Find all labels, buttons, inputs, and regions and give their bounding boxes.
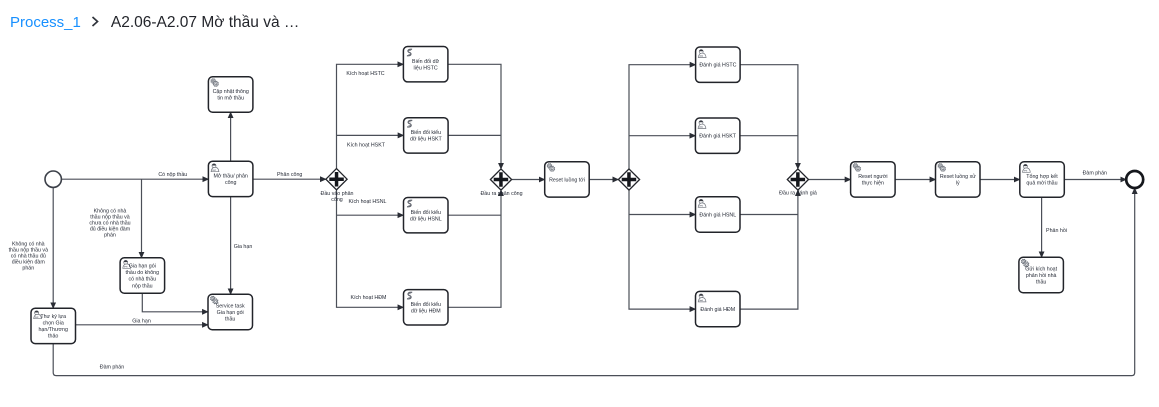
svg-text:Kích hoạt HĐM: Kích hoạt HĐM — [351, 295, 387, 301]
svg-text:Gia hạn: Gia hạn — [132, 319, 151, 325]
svg-text:Đánh giá HSTC: Đánh giá HSTC — [699, 63, 736, 69]
svg-text:Reset luồng tới: Reset luồng tới — [549, 177, 585, 183]
svg-text:Biến đổi kiểudữ liệu HSKT: Biến đổi kiểudữ liệu HSKT — [410, 129, 443, 143]
svg-text:Không có nhàthầu nộp thầu vàcó: Không có nhàthầu nộp thầu vàcó nhà thầu … — [9, 242, 49, 272]
svg-text:Có nộp thầu: Có nộp thầu — [158, 172, 187, 178]
svg-text:Reset ngườithực hiện: Reset ngườithực hiện — [858, 174, 887, 187]
svg-text:Kích hoạt HSTC: Kích hoạt HSTC — [346, 71, 384, 77]
svg-text:Gia hạn: Gia hạn — [234, 244, 253, 250]
svg-text:Đầu ra đánh giá: Đầu ra đánh giá — [779, 191, 817, 197]
svg-text:Cập nhật thôngtin mở thầu: Cập nhật thôngtin mở thầu — [213, 89, 249, 102]
svg-text:Đầu ra phân công: Đầu ra phân công — [480, 191, 522, 197]
svg-text:Tổng hợp kếtquả mời thầu: Tổng hợp kếtquả mời thầu — [1026, 173, 1058, 187]
svg-text:Kích hoạt HSKT: Kích hoạt HSKT — [347, 142, 386, 148]
svg-text:Đánh giá HĐM: Đánh giá HĐM — [700, 307, 735, 313]
svg-text:Đàm phán: Đàm phán — [100, 365, 124, 371]
svg-text:Biến đổi dữliệu HSTC: Biến đổi dữliệu HSTC — [412, 58, 440, 72]
svg-text:Không có nhàthầu nộp thầu vàch: Không có nhàthầu nộp thầu vàchưa có nhà … — [89, 209, 130, 239]
svg-text:Đánh giá HSKT: Đánh giá HSKT — [699, 134, 737, 140]
svg-text:Phân công: Phân công — [277, 172, 302, 178]
svg-text:Kích hoạt HSNL: Kích hoạt HSNL — [349, 199, 387, 205]
svg-text:Biến đổi kiểudữ liệu HĐM: Biến đổi kiểudữ liệu HĐM — [411, 301, 441, 315]
svg-text:Đàm phán: Đàm phán — [1083, 170, 1107, 176]
svg-text:Phản hồi: Phản hồi — [1046, 228, 1067, 234]
svg-text:Đánh giá HSNL: Đánh giá HSNL — [699, 212, 736, 218]
svg-text:Biến đổi kiểudữ liệu HSNL: Biến đổi kiểudữ liệu HSNL — [410, 209, 442, 223]
